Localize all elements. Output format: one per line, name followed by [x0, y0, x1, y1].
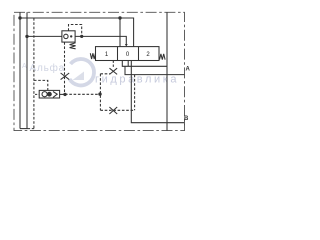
CV1 poppet ball	[64, 34, 68, 38]
wire: dashed pilot branch to check valve CV2 top	[34, 80, 48, 90]
svg-text:Альфа: Альфа	[30, 62, 66, 74]
CV1 seat dot	[70, 35, 72, 37]
svg-text:B: B	[184, 116, 189, 122]
directional valve DV1 body (3 position)	[90, 47, 165, 61]
check valve CV1 (spring loaded) body	[62, 25, 83, 95]
wire: CV2 outlet stub to node A1	[60, 93, 65, 95]
wire: valve bottom port3 stub	[127, 61, 129, 67]
node A1 junction dot	[63, 93, 66, 96]
wire: CV1 drain dashed down to node A1	[64, 42, 66, 94]
wire: dashed drop from A-line to X2 line	[134, 75, 136, 111]
plugged port X3 on CV1 drain	[61, 73, 70, 80]
wire: CV1 outlet to corner into valve top port	[75, 36, 126, 44]
DV1 left spring	[90, 53, 95, 59]
DV1 right spring	[160, 54, 166, 60]
plugged port X1 below valve	[110, 68, 118, 74]
wire: line2 horizontal y=36.4 from node T1 to valve CV1 inlet	[27, 35, 62, 37]
node: junction dot on line2 at x=27	[25, 35, 28, 38]
wire: dashed elbow horizontal to X1	[100, 73, 109, 75]
wire: dashed rail from node A1 to node B1	[65, 93, 100, 95]
wire: A line riser and horizontal to port A	[125, 66, 185, 74]
arrowhead on middle top port	[125, 44, 128, 47]
wire: T line vertical x=27 from top boundary to bottom	[26, 12, 28, 128]
plugged port X2 on bottom dashed line	[109, 107, 117, 114]
node B1 junction dot	[98, 92, 101, 95]
manifold boundary (dash-dot frame)	[14, 12, 185, 130]
CV2 ball	[47, 92, 52, 97]
node: junction dot on line1 at x=120	[118, 16, 121, 19]
wire: dashed stub into CV2 left port	[35, 93, 39, 95]
wire: right vertical x=167 from top boundary to bottom boundary	[166, 12, 168, 130]
wire: P line vertical x=20 from top boundary to bottom	[19, 12, 21, 128]
node: junction dot on line1 at x=20	[18, 16, 21, 19]
wire: drain dashed vertical x=33.9	[33, 18, 35, 129]
wire: line1 horizontal y=18 from node P1 to corner x=133.6	[20, 18, 134, 47]
wire: dashed vertical through node B1 from X1 elbow down to X2 line	[99, 74, 101, 111]
CV2 seat chevron	[53, 92, 57, 98]
DV1 divider left	[117, 47, 119, 61]
pilot operated check valve CV2 body	[39, 90, 65, 98]
wire: bottom connector of left vertical lines	[20, 128, 28, 130]
wire: valve bottom port2 elbow to right vertical	[122, 61, 167, 67]
svg-text:A: A	[186, 67, 191, 73]
wire: dashed bottom connector stub	[28, 128, 35, 130]
wire: dashed from valve bottom port to X1	[112, 61, 114, 68]
DV1 divider right	[138, 47, 140, 61]
CV1 pilot loop dashed	[69, 25, 82, 37]
wire: riser x=120 from line1 down to valve top	[119, 18, 121, 47]
watermark logo swirl	[70, 59, 95, 85]
watermark wedge	[73, 72, 85, 81]
CV1 spring	[70, 43, 76, 49]
boundary dash at B port crossing	[184, 120, 186, 126]
node: junction dot CV1 outlet	[80, 35, 83, 38]
svg-text:А: А	[22, 63, 27, 70]
CV2 circle	[42, 92, 47, 97]
wire: valve bottom port4 long drop to B corner	[131, 61, 184, 123]
wire: dashed bottom line y=110.3 with X2	[100, 109, 134, 111]
